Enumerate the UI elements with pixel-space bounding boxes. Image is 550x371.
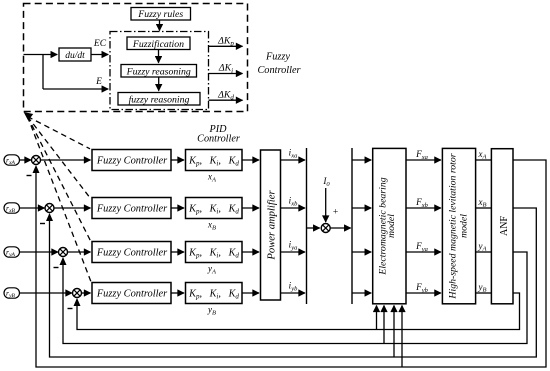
svg-text:High-speed magnetic levitation: High-speed magnetic levitation rotor bbox=[448, 153, 459, 299]
block: ANF bbox=[491, 149, 513, 304]
wire: rotor model xB out bbox=[476, 207, 492, 209]
minus sign row 3 bbox=[54, 267, 59, 269]
svg-text:Kp, Ki, Kd: Kp, Ki, Kd bbox=[188, 203, 239, 215]
dash-dot box: inference engine bbox=[110, 32, 209, 110]
summer (otimes) row 1 bbox=[32, 156, 41, 165]
wire: bias summer to coil bus bbox=[330, 227, 351, 229]
wire: delta Ki out bbox=[209, 73, 243, 75]
wire: PID gains to power amplifier 2 bbox=[242, 207, 259, 209]
wire: summer to Fuzzy Controller 4 bbox=[82, 292, 91, 294]
block: du/dt bbox=[59, 48, 91, 61]
input node r_yA bbox=[4, 247, 20, 257]
arrow: feedback into summer 2 bbox=[46, 213, 53, 221]
wire: PID gains to power amplifier 4 bbox=[242, 292, 259, 294]
wire: bus to bias summer bbox=[307, 227, 320, 229]
summer (otimes) row 2 bbox=[45, 204, 54, 213]
wire: r_xB to summer bbox=[20, 207, 45, 209]
svg-text:fuzzy reasoning: fuzzy reasoning bbox=[129, 94, 190, 105]
wire: bearing model F_xb out bbox=[406, 207, 441, 209]
wire: feedback branch into bearing model row 4 bbox=[376, 306, 378, 330]
summer (otimes) row 4 bbox=[73, 289, 82, 298]
svg-text:Controller: Controller bbox=[197, 134, 240, 145]
svg-text:Kp, Ki, Kd: Kp, Ki, Kd bbox=[188, 288, 239, 300]
minus sign row 1 bbox=[27, 175, 32, 177]
svg-text:ANF: ANF bbox=[499, 216, 510, 236]
svg-text:model: model bbox=[386, 214, 397, 238]
block: Electromagnetic bearing model bbox=[373, 148, 406, 303]
wire: r_yB to summer bbox=[20, 292, 73, 294]
wire: E branch right bbox=[43, 88, 108, 90]
summer (otimes) row 3 bbox=[59, 248, 68, 257]
wire: bearing model F_yb out bbox=[406, 292, 441, 294]
svg-text:+: + bbox=[333, 208, 338, 218]
wire: ANF feedback row 2 bbox=[50, 208, 537, 357]
minus sign row 4 bbox=[68, 308, 73, 310]
arrow: feedback into summer 4 bbox=[74, 298, 81, 306]
svg-text:Fuzzy reasoning: Fuzzy reasoning bbox=[126, 66, 191, 77]
block: Fuzzy Controller 2 bbox=[92, 198, 171, 219]
wire: rotor model yB out bbox=[476, 292, 492, 294]
wire: feedback branch into bearing model row 2 bbox=[393, 306, 395, 358]
svg-text:Fuzzy Controller: Fuzzy Controller bbox=[96, 204, 168, 215]
wire: rotor model yA out bbox=[476, 251, 492, 253]
wire: input to du/dt bbox=[24, 54, 58, 56]
wire: rotor model xA out bbox=[476, 159, 492, 161]
wire: summer to Fuzzy Controller 3 bbox=[68, 251, 91, 253]
wire: ANF feedback row 4 bbox=[77, 293, 520, 330]
svg-text:Fuzzy: Fuzzy bbox=[265, 52, 290, 63]
arrow: feedback into summer 3 bbox=[60, 257, 67, 265]
svg-text:Kp, Ki, Kd: Kp, Ki, Kd bbox=[188, 247, 239, 259]
summer (otimes) bias current bbox=[321, 224, 330, 233]
svg-text:Fuzzy Controller: Fuzzy Controller bbox=[96, 156, 168, 167]
wire: feedback branch into bearing model row 1 bbox=[401, 306, 403, 368]
block: Fuzzy Controller 4 bbox=[92, 283, 171, 304]
wire: bearing model F_xa out bbox=[406, 159, 441, 161]
wire: Fuzzy reasoning to fuzzy reasoning bbox=[158, 77, 160, 91]
input node r_xB bbox=[4, 203, 20, 213]
wire: feedback branch into bearing model row 3 bbox=[383, 306, 385, 344]
wire: delta Kd out bbox=[209, 99, 243, 101]
wire: Fuzzy Controller to PID gains 4 bbox=[171, 292, 184, 294]
wire: current bus to bearing model 2 bbox=[352, 207, 371, 209]
wire: Fuzzy Controller to PID gains 3 bbox=[171, 251, 184, 253]
wire: power amplifier out i_xa bbox=[281, 159, 306, 161]
wire: current bus to bearing model 1 bbox=[352, 159, 371, 161]
bus: coil current node bbox=[351, 148, 353, 304]
svg-text:du/dt: du/dt bbox=[65, 51, 85, 61]
dashed link to Fuzzy Controller 4 bbox=[28, 117, 92, 282]
arrow: fan origin at dashed box corner bbox=[24, 112, 34, 121]
bus: amplifier output node bbox=[306, 148, 308, 304]
block: fuzzy reasoning (defuzzification) bbox=[118, 93, 200, 106]
wire: I0 into summer bbox=[325, 188, 327, 222]
dashed box: fuzzy controller detail bbox=[24, 4, 248, 112]
wire: r_xA to summer bbox=[20, 159, 32, 161]
wire: PID gains to power amplifier 3 bbox=[242, 251, 259, 253]
svg-text:Power amplifier: Power amplifier bbox=[267, 190, 278, 261]
wire: power amplifier out i_yb bbox=[281, 292, 306, 294]
wire: ANF feedback row 3 bbox=[63, 252, 527, 344]
wire: current bus to bearing model 4 bbox=[352, 292, 371, 294]
arrow: feedback into summer 1 bbox=[33, 165, 40, 173]
wire: current bus to bearing model 3 bbox=[352, 251, 371, 253]
dashed link to Fuzzy Controller 2 bbox=[28, 117, 91, 198]
wire: summer to Fuzzy Controller 2 bbox=[54, 207, 91, 209]
input node r_yB bbox=[4, 288, 20, 298]
svg-text:Fuzzification: Fuzzification bbox=[132, 39, 184, 50]
minus sign row 2 bbox=[40, 223, 45, 225]
wire: Fuzzification to Fuzzy reasoning bbox=[158, 50, 160, 63]
block: PID gains 3 bbox=[186, 242, 243, 263]
wire: power amplifier out i_xb bbox=[281, 207, 306, 209]
wire: power amplifier out i_ya bbox=[281, 251, 306, 253]
block: High-speed magnetic levitation rotor model bbox=[442, 148, 475, 303]
block: Power amplifier bbox=[261, 150, 281, 300]
block: Fuzzy rules bbox=[131, 8, 191, 21]
wire: delta Kp out bbox=[209, 45, 243, 47]
svg-text:Fuzzy rules: Fuzzy rules bbox=[137, 9, 183, 20]
dashed link to Fuzzy Controller 3 bbox=[28, 117, 91, 241]
block: Fuzzy reasoning bbox=[121, 65, 197, 78]
block: Fuzzy Controller 1 bbox=[92, 150, 171, 171]
wire: Fuzzy Controller to PID gains 2 bbox=[171, 207, 184, 209]
wire: r_yA to summer bbox=[20, 251, 59, 253]
block: PID gains 4 bbox=[186, 283, 243, 304]
wire: E branch down bbox=[42, 55, 44, 90]
block: Fuzzification bbox=[127, 37, 190, 50]
wire: bearing model F_ya out bbox=[406, 251, 441, 253]
svg-text:model: model bbox=[459, 214, 470, 238]
svg-text:E: E bbox=[95, 77, 102, 87]
wire: PID gains to power amplifier 1 bbox=[242, 159, 259, 161]
wire: du/dt to fuzzification box EC bbox=[91, 54, 108, 56]
svg-text:ΔKi: ΔKi bbox=[218, 63, 233, 75]
dashed link to Fuzzy Controller 1 bbox=[28, 117, 91, 149]
wire: ANF feedback row 1 bbox=[36, 160, 546, 367]
svg-text:Fuzzy Controller: Fuzzy Controller bbox=[96, 289, 168, 300]
block: PID gains 1 bbox=[186, 150, 243, 171]
svg-text:EC: EC bbox=[93, 39, 107, 49]
wire: summer to Fuzzy Controller 1 bbox=[41, 159, 91, 161]
svg-text:Kp, Ki, Kd: Kp, Ki, Kd bbox=[188, 155, 239, 167]
svg-text:Fuzzy Controller: Fuzzy Controller bbox=[96, 248, 168, 259]
svg-text:Controller: Controller bbox=[257, 65, 301, 76]
wire: Fuzzy rules to Fuzzification bbox=[159, 20, 161, 31]
block: PID gains 2 bbox=[186, 198, 243, 219]
wire: Fuzzy Controller to PID gains 1 bbox=[171, 159, 184, 161]
input node r_xA bbox=[4, 155, 20, 165]
block: Fuzzy Controller 3 bbox=[92, 242, 171, 263]
